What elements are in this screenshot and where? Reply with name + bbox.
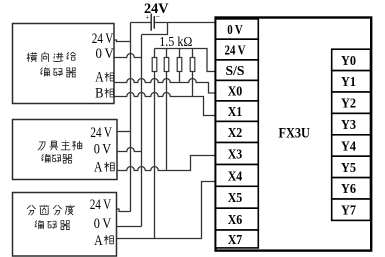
svg-text:X1: X1 xyxy=(228,105,243,120)
wire: encoder1 24V pin to 24V bus xyxy=(114,40,131,42)
wire: encoder1 0V pin to 0V bus (hops 24V bus) xyxy=(114,53,142,57)
box1 name line1 横向进给 xyxy=(27,52,76,62)
terminal cell Y5 xyxy=(332,156,371,177)
svg-text:X4: X4 xyxy=(228,169,243,184)
box1 name line2 编码器 xyxy=(40,67,76,77)
svg-text:Y3: Y3 xyxy=(341,118,356,133)
svg-text:A: A xyxy=(94,160,103,176)
battery B1 right plate xyxy=(153,16,155,29)
wire: encoder1 A-phase to X0 (hops buses and R1,R2,R4 leads; joins R3) xyxy=(114,79,216,94)
resistor R2 xyxy=(166,49,168,58)
wire: encoder1 B-phase to X1 (hops buses and R1,R2 leads; joins R4) xyxy=(114,92,216,115)
wire: encoder3 A-phase to X4 (joins R1 lead) xyxy=(117,182,216,239)
svg-text:X0: X0 xyxy=(228,85,243,100)
svg-text:X5: X5 xyxy=(228,191,243,206)
terminal cell 24V xyxy=(216,39,259,60)
terminal cell X0 xyxy=(216,80,259,101)
svg-text:24 V: 24 V xyxy=(92,31,114,47)
svg-text:Y6: Y6 xyxy=(341,182,356,197)
terminal cell Y7 xyxy=(332,199,371,220)
svg-text:X6: X6 xyxy=(228,213,243,228)
svg-text:0 V: 0 V xyxy=(227,23,243,38)
wire: battery to 24V bus (left) xyxy=(131,22,151,24)
svg-text:X3: X3 xyxy=(228,147,243,162)
svg-text:1.5 kΩ: 1.5 kΩ xyxy=(159,34,192,49)
svg-text:0 V: 0 V xyxy=(94,142,112,158)
terminal cell S/S xyxy=(216,60,259,81)
resistor R3 xyxy=(179,49,181,58)
resistor R3 lead down to encoder1 A-phase net xyxy=(179,72,181,83)
svg-text:Y4: Y4 xyxy=(341,139,356,154)
svg-text:Y2: Y2 xyxy=(341,97,356,112)
encoder box 3 (indexing encoder) xyxy=(13,193,117,257)
svg-text:X2: X2 xyxy=(228,126,243,141)
wire: battery to FX3U 0V terminal xyxy=(155,22,216,24)
terminal cell X3 xyxy=(216,143,259,165)
wire: encoder3 0V pin to 0V bus end xyxy=(117,226,142,228)
svg-text:Y1: Y1 xyxy=(341,75,356,90)
terminal cell Y1 xyxy=(332,71,371,92)
terminal cell Y0 xyxy=(332,49,371,70)
terminal cell Y3 xyxy=(332,113,371,134)
wire: encoder2 24V pin to 24V bus xyxy=(117,131,131,133)
svg-text:0 V: 0 V xyxy=(94,216,112,232)
svg-text:24 V: 24 V xyxy=(90,125,112,141)
wire: encoder2 A-phase to X3 (hops buses and R1 lead; joins R2) xyxy=(117,156,216,171)
terminal cell X2 xyxy=(216,121,259,142)
terminal cell Y4 xyxy=(332,135,371,156)
svg-text:Y5: Y5 xyxy=(341,161,356,176)
encoder box 2 (tool spindle encoder) xyxy=(13,120,118,180)
resistor R4 lead down to encoder1 B-phase net xyxy=(192,72,194,97)
resistor R1 xyxy=(154,49,156,58)
wire: encoder2 0V pin to 0V bus (hops 24V bus) xyxy=(117,148,142,152)
svg-text:B: B xyxy=(95,86,104,102)
resistor R1 lead down to encoder3 A-phase net xyxy=(154,72,156,239)
svg-text:+: + xyxy=(145,13,149,21)
terminal cell X4 xyxy=(216,165,259,187)
box3 name line2 编码器 xyxy=(35,220,70,229)
box2 name line1 刀具主轴 xyxy=(38,140,82,150)
svg-text:X7: X7 xyxy=(228,233,243,248)
PLC FX3U outer box xyxy=(216,18,372,251)
svg-text:24 V: 24 V xyxy=(90,197,112,213)
box2 name line2 编码器 xyxy=(41,154,72,163)
wire: 24V bus (vertical) xyxy=(130,23,132,212)
svg-text:A: A xyxy=(94,233,103,249)
box3 name line1 分齿分度 xyxy=(27,205,75,215)
wire: staircase from 0V net down to 0V bus xyxy=(142,23,168,35)
resistor R4 xyxy=(192,49,194,58)
svg-text:−: − xyxy=(156,12,161,21)
terminal cell X7 xyxy=(216,230,259,248)
terminal cell Y2 xyxy=(332,92,371,113)
wire: 0V bus (vertical) xyxy=(141,35,143,227)
wire: resistor top rail to S/S xyxy=(155,49,217,72)
encoder box 1 (transverse feed encoder) xyxy=(13,24,115,104)
terminal cell X5 xyxy=(216,186,259,208)
svg-text:Y0: Y0 xyxy=(341,54,356,69)
svg-text:FX3U: FX3U xyxy=(278,125,310,141)
resistor R2 lead down to encoder2 A-phase net xyxy=(166,72,168,171)
terminal cell X1 xyxy=(216,101,259,122)
terminal cell 0V xyxy=(216,19,259,39)
svg-text:S/S: S/S xyxy=(226,64,245,79)
svg-text:0 V: 0 V xyxy=(96,46,115,62)
battery B1 left plate xyxy=(150,14,152,31)
wire: encoder3 24V pin to 24V bus end xyxy=(117,209,131,212)
svg-text:A: A xyxy=(95,70,104,86)
svg-text:24 V: 24 V xyxy=(225,43,246,58)
terminal cell X6 xyxy=(216,208,259,230)
svg-text:Y7: Y7 xyxy=(341,204,356,219)
terminal cell Y6 xyxy=(332,178,371,199)
